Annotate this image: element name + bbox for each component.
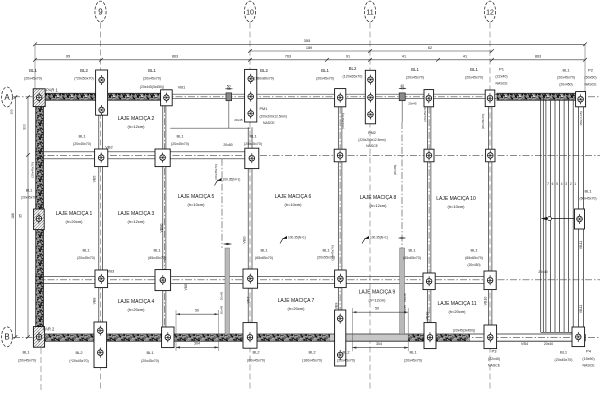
svg-text:(20x45x70): (20x45x70) [24, 77, 42, 81]
grid bubble B [2, 327, 13, 347]
svg-text:300: 300 [10, 109, 14, 114]
embedded grey beam x402 lower [400, 248, 405, 334]
beam VB9 right edge [341, 107, 343, 334]
stair direction arrow [542, 217, 577, 221]
svg-text:(60x45x70): (60x45x70) [580, 197, 597, 201]
svg-text:LAJE MACIÇA 1: LAJE MACIÇA 1 [56, 211, 93, 217]
column BL1 grid10 row3 [243, 269, 258, 288]
beam grid A middle top edge [172, 93, 497, 95]
grid line B axis [13, 336, 600, 338]
svg-text:P2: P2 [588, 68, 594, 73]
svg-text:(h=20cm): (h=20cm) [127, 307, 145, 312]
elevation marker 100.35(N+1) [362, 236, 388, 244]
svg-text:(160x80x70): (160x80x70) [254, 76, 274, 80]
column P3 grid12 bottom [484, 325, 497, 349]
svg-text:BL2: BL2 [80, 68, 88, 73]
svg-text:PAR 2: PAR 2 [43, 327, 55, 332]
svg-text:(h=20cm): (h=20cm) [448, 309, 466, 314]
column PM2 grid11 [365, 70, 375, 124]
column P1 grid12 top [485, 90, 495, 107]
extension line left [34, 44, 36, 93]
svg-text:5: 5 [556, 182, 558, 186]
svg-text:(20x45x70): (20x45x70) [73, 142, 91, 146]
column BL2 grid10 bottom [243, 323, 257, 349]
stair bottom landing edge [541, 331, 584, 333]
svg-text:355: 355 [304, 38, 311, 43]
hanger line x228 [228, 101, 230, 129]
beam grid12 left edge [487, 107, 489, 334]
dim line 304 right opening [352, 347, 408, 349]
wall band left stippled [36, 94, 43, 341]
svg-text:95: 95 [66, 55, 70, 59]
svg-text:BL2: BL2 [308, 350, 316, 355]
svg-text:BL1: BL1 [470, 67, 478, 72]
column c429 mid [424, 149, 434, 162]
svg-text:(20x45x70): (20x45x70) [481, 114, 485, 129]
svg-text:VB11: VB11 [579, 305, 583, 314]
svg-text:2: 2 [570, 182, 572, 186]
svg-text:BL1: BL1 [470, 248, 478, 253]
slab label LAJE MACIÇA 8 [360, 195, 397, 208]
stair well left edges [540, 98, 542, 333]
svg-text:41: 41 [463, 55, 467, 59]
column c340 mid [334, 149, 346, 162]
beam VB7 right edge [251, 127, 253, 334]
column BL1 c429 row3 [423, 273, 435, 290]
dim line 50 right opening [352, 311, 408, 313]
svg-text:P4: P4 [586, 349, 592, 354]
svg-text:(20x45x70): (20x45x70) [143, 77, 161, 81]
svg-text:VB9: VB9 [334, 303, 338, 310]
grid line A axis [13, 96, 600, 98]
svg-text:(20x45(3x450)): (20x45(3x450)) [453, 328, 475, 332]
svg-text:BL1: BL1 [408, 248, 416, 253]
svg-text:(*20x45x70): (*20x45x70) [69, 359, 88, 363]
beam VB3 bottom edge [35, 282, 496, 284]
svg-text:(h=12cm): (h=12cm) [368, 298, 386, 303]
svg-text:VB3: VB3 [107, 269, 115, 274]
svg-text:VBG: VBG [184, 283, 188, 290]
slab label LAJE MACIÇA 6 [275, 194, 312, 207]
svg-text:LAJE MACIÇA 9: LAJE MACIÇA 9 [359, 290, 396, 296]
grid bubble 11 [364, 1, 375, 22]
beam VB5 right edge [101, 100, 103, 334]
column PM1 grid10 [245, 69, 257, 122]
svg-text:(20x45x70): (20x45x70) [18, 358, 36, 362]
svg-text:(65x65x70): (65x65x70) [465, 256, 483, 260]
svg-text:(20x45x70): (20x45x70) [557, 76, 575, 80]
svg-text:LAJE MACIÇA 7: LAJE MACIÇA 7 [278, 298, 315, 304]
svg-text:VB7: VB7 [247, 297, 251, 304]
left dimension line inner [27, 97, 29, 337]
svg-text:VB1: VB1 [178, 85, 186, 90]
svg-text:VB5: VB5 [92, 176, 96, 183]
svg-text:BL1: BL1 [321, 68, 329, 73]
svg-text:BL1: BL1 [78, 134, 86, 139]
dim extension right opening [351, 308, 353, 351]
column PAR1 corner [33, 89, 45, 107]
svg-text:BL1: BL1 [584, 189, 592, 194]
svg-text:40: 40 [400, 84, 404, 88]
svg-text:10: 10 [246, 10, 254, 17]
column BL2 c340 top [335, 89, 346, 107]
svg-text:9: 9 [98, 8, 103, 17]
svg-text:BL1: BL1 [411, 67, 419, 72]
beam VB11 left edge [578, 94, 580, 346]
column VB11 mid support [575, 209, 585, 229]
svg-text:VB11: VB11 [579, 241, 583, 250]
svg-text:100.35(N+1): 100.35(N+1) [223, 178, 241, 182]
svg-text:6: 6 [552, 182, 554, 186]
svg-text:BL1: BL1 [26, 189, 32, 193]
svg-text:BL2: BL2 [252, 350, 260, 355]
svg-text:VB8: VB8 [92, 298, 96, 305]
column BL1 grid9 row3 [95, 270, 108, 288]
beam grid12 right edge [491, 107, 493, 334]
svg-text:VB2: VB2 [105, 144, 113, 149]
grid line 11 axis [369, 23, 371, 392]
grid bubble 12 [484, 1, 495, 22]
svg-text:12: 12 [486, 10, 494, 17]
svg-text:(65x45x70): (65x45x70) [148, 256, 166, 260]
svg-text:BL1: BL1 [22, 350, 30, 355]
svg-text:BL1: BL1 [176, 134, 184, 139]
slab label LAJE MACIÇA 9 [359, 290, 396, 303]
beam band grid B stippled right segment [408, 334, 470, 341]
svg-text:(20x45x70): (20x45x70) [337, 358, 355, 362]
column PAR2 corner [33, 327, 44, 348]
column P2 top right [576, 92, 586, 107]
svg-text:BL1: BL1 [249, 134, 257, 139]
svg-text:NASCE: NASCE [584, 82, 597, 86]
svg-text:189: 189 [306, 46, 312, 50]
svg-text:150(-0.05): 150(-0.05) [579, 111, 583, 125]
svg-text:(20x45x70): (20x45x70) [141, 359, 159, 363]
svg-text:50: 50 [375, 306, 379, 310]
column BL1 c164 row3 [155, 270, 171, 291]
embedded grey beam x227 lower [225, 248, 230, 334]
svg-text:LAJE MACIÇA 11: LAJE MACIÇA 11 [437, 301, 476, 307]
svg-text:(20x45x70): (20x45x70) [341, 113, 345, 128]
beam band grid B top edge [35, 333, 585, 335]
svg-text:(20x45x70): (20x45x70) [316, 76, 334, 80]
svg-text:(20x450): (20x450) [559, 82, 572, 86]
beam VB3 top edge [35, 275, 496, 277]
beam VB6 right edge [165, 106, 167, 334]
beam band grid B stippled left segment [35, 334, 330, 341]
svg-text:4: 4 [561, 182, 563, 186]
column P4 bottom right [572, 327, 585, 347]
svg-text:VBG: VBG [243, 236, 247, 244]
svg-text:(h=10cm): (h=10cm) [187, 202, 205, 207]
svg-text:(20x45x70): (20x45x70) [21, 196, 37, 200]
beam VB10 right edge [430, 107, 432, 334]
dim bracket x227 [224, 243, 232, 245]
beam VB9 left edge [337, 107, 339, 334]
slab label LAJE MACIÇA 2 [118, 116, 155, 129]
svg-text:(20x450): (20x450) [467, 263, 480, 267]
svg-text:304: 304 [194, 342, 200, 346]
svg-text:(20x45x70): (20x45x70) [77, 256, 95, 260]
beam grid A middle bottom edge [172, 98, 497, 100]
svg-text:B: B [4, 333, 9, 342]
stair tread numbers [547, 182, 576, 186]
svg-text:VB4: VB4 [521, 342, 528, 346]
svg-text:VB6G: VB6G [159, 223, 163, 232]
beam VB6 left edge [162, 106, 164, 334]
svg-text:304: 304 [376, 342, 382, 346]
dimension line row2 [250, 50, 492, 52]
svg-text:50: 50 [195, 308, 199, 312]
building right edge bottom [584, 334, 586, 341]
elevation marker 100.35(N+1) [215, 178, 241, 186]
svg-text:VB10: VB10 [484, 297, 488, 306]
slab 2 boundary line [170, 127, 250, 129]
svg-text:20x45: 20x45 [234, 118, 243, 122]
svg-text:VB10: VB10 [426, 312, 430, 321]
svg-text:(22x40): (22x40) [495, 75, 507, 79]
slab label LAJE MACIÇA 11 [437, 301, 476, 314]
beam VB5 left edge [98, 100, 100, 334]
svg-text:(20x45): (20x45) [393, 165, 397, 176]
svg-text:20x40: 20x40 [544, 342, 553, 346]
svg-text:(160x45x70): (160x45x70) [302, 358, 322, 362]
elevation marker 100.35(N+1) [280, 236, 306, 244]
slab label LAJE MACIÇA 5 [178, 194, 215, 207]
svg-text:20x80: 20x80 [223, 143, 232, 147]
wall band left inner edge [43, 93, 45, 341]
svg-text:91: 91 [346, 55, 350, 59]
hanger line x402 [401, 101, 403, 122]
svg-text:BL1: BL1 [146, 350, 154, 355]
svg-text:20x45: 20x45 [408, 102, 417, 106]
beam VB3 axis [35, 279, 600, 281]
svg-text:(h=12cm): (h=12cm) [127, 124, 145, 129]
column BL1 c429 bottom [424, 323, 436, 349]
svg-text:50: 50 [227, 84, 231, 88]
beam band grid B bottom edge [35, 340, 585, 342]
svg-text:BL1: BL1 [260, 248, 268, 253]
column BL2 grid9 top [96, 70, 108, 115]
svg-text:(20x45x70): (20x45x70) [171, 142, 189, 146]
svg-text:(h=20cm): (h=20cm) [65, 219, 83, 224]
svg-text:(20x45x70): (20x45x70) [404, 358, 422, 362]
beam VB10 left edge [426, 107, 428, 334]
beam band grid A top edge right [497, 92, 586, 94]
beam VB7 left edge [247, 127, 249, 334]
svg-text:(20x45x70): (20x45x70) [214, 164, 218, 179]
beam band grid A top edge left [35, 92, 172, 94]
beam VB2 bottom edge [35, 158, 259, 160]
beam band grid A bottom edge right [497, 99, 586, 101]
svg-text:PM2: PM2 [368, 131, 376, 135]
svg-text:763: 763 [285, 55, 291, 59]
svg-text:BL1: BL1 [409, 350, 417, 355]
wall axis stub below PAR2 [40, 348, 42, 392]
svg-text:BL1: BL1 [322, 248, 330, 253]
svg-text:LAJE MACIÇA 6: LAJE MACIÇA 6 [275, 194, 312, 200]
svg-text:(65x65x70): (65x65x70) [403, 256, 421, 260]
svg-text:(20x45x70): (20x45x70) [244, 142, 262, 146]
beam band grid A bottom edge left [35, 99, 172, 101]
stair treads [546, 101, 573, 333]
beam VB6 axis [163, 106, 165, 334]
svg-text:A: A [4, 93, 10, 102]
slab label LAJE MACIÇA 4 [118, 299, 155, 312]
column BL1 c340 row3 [335, 270, 347, 288]
svg-text:NASCE: NASCE [263, 121, 275, 125]
grid bubble A [2, 87, 13, 107]
svg-text:LAJE MACIÇA 4: LAJE MACIÇA 4 [118, 299, 155, 305]
svg-text:(20x45x70): (20x45x70) [423, 106, 427, 121]
dim bracket x402 [399, 237, 406, 239]
svg-text:BL1: BL1 [82, 248, 90, 253]
svg-text:1: 1 [574, 182, 576, 186]
grid line 10 axis [249, 23, 251, 392]
column wall col left [34, 209, 45, 230]
beam band grid A stippled right segment [497, 94, 586, 100]
svg-text:(50x50): (50x50) [584, 76, 596, 80]
svg-text:BL2: BL2 [260, 68, 268, 73]
svg-text:41: 41 [402, 55, 406, 59]
svg-text:20x40: 20x40 [538, 270, 547, 274]
svg-text:35: 35 [19, 214, 23, 218]
svg-text:863: 863 [172, 55, 178, 59]
svg-text:LAJE MACIÇA 8: LAJE MACIÇA 8 [360, 195, 397, 201]
grey column top x402 [399, 93, 405, 101]
svg-text:20x45: 20x45 [403, 305, 407, 314]
dim extension left opening [175, 310, 177, 351]
beam VB11 right edge [582, 94, 584, 346]
svg-text:(20x45x70): (20x45x70) [465, 75, 483, 79]
svg-text:20x45: 20x45 [403, 293, 407, 302]
svg-text:LAJE MACIÇA 2: LAJE MACIÇA 2 [118, 116, 155, 122]
slab label LAJE MACIÇA 3 [118, 211, 155, 224]
column grid12 row3 [484, 271, 496, 290]
svg-text:62: 62 [428, 46, 432, 50]
svg-text:BL1: BL1 [148, 68, 156, 73]
svg-text:NASCE: NASCE [495, 81, 508, 85]
dimension line overall 355 [35, 43, 585, 45]
column VB1 support [161, 90, 173, 106]
svg-text:100.35(N+1): 100.35(N+1) [288, 236, 306, 240]
svg-text:NASCE: NASCE [582, 364, 595, 368]
grid bubble 9 [95, 1, 106, 22]
embedded beam axis x402 [401, 122, 403, 248]
beam VB10 axis [428, 107, 430, 334]
slab label LAJE MACIÇA 10 [436, 196, 476, 209]
svg-text:BL2: BL2 [349, 66, 357, 71]
svg-text:863: 863 [535, 55, 541, 59]
svg-text:(20x45x70): (20x45x70) [331, 245, 335, 260]
embedded beam axis x222 [221, 159, 223, 248]
beam band grid A stippled left segment [35, 94, 172, 100]
svg-text:(22x40): (22x40) [488, 357, 500, 361]
svg-text:20x45: 20x45 [220, 306, 224, 315]
svg-text:(20x445(3x450)): (20x445(3x450)) [140, 85, 164, 89]
svg-text:(*20x50x70): (*20x50x70) [74, 77, 93, 81]
svg-text:PAR 1: PAR 1 [46, 87, 58, 92]
svg-text:PM1: PM1 [260, 107, 268, 111]
svg-text:(120x65x70): (120x65x70) [343, 75, 363, 79]
column BL1 c429 top [424, 90, 434, 107]
beam VB9 axis [339, 107, 341, 334]
grid line 12 axis [489, 23, 491, 392]
extension line right [584, 44, 586, 93]
grey column top x228 [226, 93, 232, 101]
dim line 50 left opening [176, 313, 219, 315]
slab label LAJE MACIÇA 1 [56, 211, 93, 224]
svg-text:P1: P1 [499, 67, 505, 72]
svg-text:(20x45x70): (20x45x70) [406, 75, 424, 79]
svg-text:(h=10cm): (h=10cm) [284, 202, 302, 207]
svg-text:P3: P3 [492, 349, 498, 354]
svg-text:(60x45x70): (60x45x70) [247, 358, 265, 362]
svg-text:3: 3 [565, 182, 567, 186]
svg-text:NASCE: NASCE [488, 364, 501, 368]
svg-text:(h=20cm): (h=20cm) [287, 306, 305, 311]
svg-text:300: 300 [22, 124, 26, 130]
column BL2 c340 bottom [335, 310, 346, 366]
column BL2 grid9 bottom [94, 322, 107, 368]
svg-text:BL2: BL2 [342, 350, 350, 355]
svg-text:BL1: BL1 [29, 68, 37, 73]
svg-text:(20x45x70): (20x45x70) [31, 162, 35, 177]
left dimension line outer [15, 97, 17, 337]
slab label LAJE MACIÇA 7 [278, 298, 315, 311]
svg-text:BL1: BL1 [560, 350, 568, 355]
svg-text:NASCE: NASCE [366, 144, 378, 148]
dimension line row3 [35, 59, 585, 61]
svg-text:11: 11 [366, 10, 373, 17]
wall band left outer edge [35, 93, 37, 341]
svg-text:LAJE MACIÇA 5: LAJE MACIÇA 5 [178, 194, 215, 200]
svg-text:BL2: BL2 [75, 350, 83, 355]
svg-text:BL1: BL1 [153, 248, 161, 253]
grid bubble 10 [244, 1, 255, 22]
svg-text:BL1: BL1 [562, 68, 570, 73]
column BL1 c164 bottom [162, 327, 174, 348]
svg-text:100.35(N+1): 100.35(N+1) [370, 236, 388, 240]
svg-text:LAJE MACIÇA 10: LAJE MACIÇA 10 [436, 196, 476, 202]
svg-text:20x45: 20x45 [220, 292, 224, 301]
svg-text:(65x65x70): (65x65x70) [255, 256, 273, 260]
svg-text:(h=12cm): (h=12cm) [369, 203, 387, 208]
column BL2 c164 mid [155, 149, 170, 167]
svg-text:(220x200x12.5mm): (220x200x12.5mm) [358, 138, 385, 142]
column BL1 grid9 mid [95, 149, 108, 167]
column grid12 mid [486, 149, 495, 162]
svg-text:(h=12cm): (h=12cm) [127, 219, 145, 224]
svg-text:LAJE MACIÇA 3: LAJE MACIÇA 3 [118, 211, 155, 217]
svg-text:(h=10cm): (h=10cm) [447, 204, 465, 209]
grid line 9 axis [100, 23, 102, 392]
beam VB2 top edge [35, 151, 259, 153]
svg-text:7: 7 [547, 182, 549, 186]
beam VB2 axis [35, 154, 600, 156]
svg-text:(20x45x70): (20x45x70) [555, 358, 573, 362]
svg-text:(200x200x12.5mm): (200x200x12.5mm) [260, 115, 287, 119]
svg-text:188: 188 [11, 213, 15, 219]
beam band grid B grey shaft segment [330, 334, 408, 341]
dim line 304 left opening [176, 346, 219, 348]
column BL1 grid10 mid [245, 148, 259, 168]
svg-text:(15x90): (15x90) [582, 357, 594, 361]
